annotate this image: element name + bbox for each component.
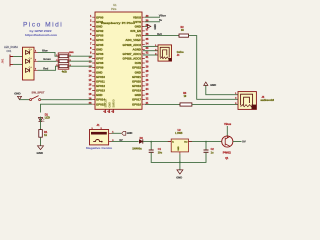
svg-text:GP012: GP012 bbox=[96, 84, 105, 88]
wire psu rail bbox=[143, 141, 222, 143]
svg-text:Negative Centre: Negative Centre bbox=[86, 146, 113, 150]
subtitle note bbox=[25, 29, 58, 37]
svg-text:GP00: GP00 bbox=[96, 15, 104, 19]
svg-text:Green: Green bbox=[43, 57, 51, 61]
svg-text:5V: 5V bbox=[242, 139, 246, 143]
svg-text:JH1: JH1 bbox=[1, 58, 5, 63]
jack pin numbers bbox=[112, 132, 114, 142]
svg-text:VBus: VBus bbox=[224, 122, 232, 126]
svg-text:GND: GND bbox=[96, 24, 102, 28]
connector JH1 bbox=[1, 45, 19, 67]
svg-text:GP016: GP016 bbox=[132, 102, 141, 106]
global label GND jack bbox=[122, 131, 133, 135]
svg-text:GND: GND bbox=[127, 131, 133, 135]
resistor R2 bbox=[179, 26, 189, 37]
junction C2 bbox=[205, 141, 207, 143]
wire Red bbox=[38, 66, 59, 70]
svg-text:SWDIO: SWDIO bbox=[113, 99, 116, 107]
svg-text:RUN: RUN bbox=[135, 61, 141, 65]
svg-text:GP03: GP03 bbox=[96, 34, 104, 38]
svg-text:by GPW 2022: by GPW 2022 bbox=[30, 29, 53, 33]
svg-text:3V3: 3V3 bbox=[136, 34, 142, 38]
LED D1 bbox=[39, 112, 51, 121]
wire GP015 branch bbox=[41, 104, 93, 112]
svg-text:1u: 1u bbox=[211, 151, 214, 154]
barrel jack J1 bbox=[86, 123, 113, 150]
svg-text:GND: GND bbox=[109, 102, 112, 108]
svg-text:9V: 9V bbox=[119, 138, 122, 142]
svg-text:GND: GND bbox=[96, 70, 102, 74]
svg-text:GP08: GP08 bbox=[96, 61, 104, 65]
U1 bottom debug pins bbox=[103, 98, 115, 113]
capacitor C2 bbox=[204, 142, 215, 155]
svg-text:GP04: GP04 bbox=[96, 38, 104, 42]
svg-text:GND: GND bbox=[135, 24, 141, 28]
wire VBus to Q1 bbox=[226, 126, 228, 136]
ground below R1 bbox=[37, 146, 44, 155]
svg-text:audiosock3: audiosock3 bbox=[261, 99, 275, 102]
svg-text:GP09: GP09 bbox=[96, 66, 104, 70]
wire R3 net bbox=[145, 103, 180, 105]
midi socket J4 bbox=[155, 45, 184, 61]
svg-text:LED_RGBA: LED_RGBA bbox=[4, 45, 18, 49]
svg-text:GND: GND bbox=[178, 146, 180, 151]
junction rail bbox=[179, 162, 181, 164]
ground at switch bbox=[14, 91, 21, 99]
svg-text:GP05: GP05 bbox=[96, 43, 104, 47]
wire gnd to switch bbox=[20, 99, 30, 101]
transistor Q1 bbox=[222, 136, 233, 160]
svg-text:3: 3 bbox=[35, 68, 36, 70]
svg-text:GP028_ADC2: GP028_ADC2 bbox=[123, 43, 142, 47]
wire switch to GP014 bbox=[41, 99, 93, 101]
junction C1 bbox=[150, 141, 152, 143]
wires RN1 to U1 bbox=[69, 56, 92, 66]
svg-text:VBus: VBus bbox=[159, 14, 167, 18]
svg-text:GND: GND bbox=[96, 47, 102, 51]
resistor R3 bbox=[180, 92, 192, 106]
resistor R1 bbox=[39, 130, 48, 138]
svg-text:Pico Midi: Pico Midi bbox=[23, 21, 63, 28]
svg-text:Out: Out bbox=[184, 140, 188, 143]
svg-text:Pico: Pico bbox=[111, 7, 117, 11]
svg-text:3v3: 3v3 bbox=[157, 32, 162, 36]
ground flag pin38 bbox=[145, 24, 157, 30]
svg-text:Raspberry Pi Pico: Raspberry Pi Pico bbox=[101, 21, 135, 25]
wire JH1 to LED bbox=[13, 57, 23, 65]
wire gnd to socket J5 bbox=[206, 85, 238, 94]
svg-text:5v: 5v bbox=[159, 18, 163, 22]
svg-text:GP06: GP06 bbox=[96, 52, 104, 56]
ground rail bbox=[151, 152, 206, 170]
svg-text:SWCLK: SWCLK bbox=[105, 98, 108, 107]
svg-text:GP011: GP011 bbox=[96, 79, 105, 83]
regulator U2 bbox=[168, 129, 192, 155]
U1 right pins bbox=[123, 15, 149, 106]
ground above socket J5 bbox=[204, 82, 217, 87]
label VBus top bbox=[224, 122, 232, 126]
wire VBUS bbox=[145, 14, 167, 18]
wire jack pin2 9V bbox=[112, 138, 139, 142]
wire D1 to R1 bbox=[40, 117, 42, 130]
svg-text:GP020: GP020 bbox=[132, 79, 141, 83]
svg-text:GP01: GP01 bbox=[96, 20, 104, 24]
svg-text:GP018: GP018 bbox=[132, 89, 141, 93]
audio socket J5 bbox=[235, 92, 275, 110]
svg-text:GP021: GP021 bbox=[132, 75, 141, 79]
capacitor C1 bbox=[149, 142, 163, 155]
U1 left pins bbox=[89, 15, 106, 106]
svg-text:ADC_VREF: ADC_VREF bbox=[125, 38, 141, 42]
svg-text:GP027_ADC1: GP027_ADC1 bbox=[123, 52, 142, 56]
svg-text:GP013: GP013 bbox=[96, 89, 105, 93]
svg-text:GND: GND bbox=[154, 24, 157, 30]
svg-text:GP017: GP017 bbox=[132, 98, 141, 102]
LED D2 RGB package bbox=[23, 47, 38, 80]
diode D3 bbox=[132, 137, 143, 151]
svg-text:LED: LED bbox=[45, 116, 50, 120]
svg-text:2: 2 bbox=[35, 59, 36, 61]
svg-text:GP026_ADC0: GP026_ADC0 bbox=[123, 57, 142, 61]
svg-text:GND: GND bbox=[176, 175, 182, 179]
wire R3 to socket J5 bbox=[192, 103, 238, 105]
svg-text:htlps://tedunsch.com: htlps://tedunsch.com bbox=[25, 33, 58, 37]
svg-text:GP019: GP019 bbox=[132, 84, 141, 88]
svg-text:1N400x: 1N400x bbox=[132, 147, 142, 150]
wire Blue bbox=[38, 49, 59, 57]
svg-text:GND: GND bbox=[135, 70, 141, 74]
svg-text:10u: 10u bbox=[158, 151, 163, 154]
svg-text:J1: J1 bbox=[97, 123, 100, 127]
svg-text:VSYS: VSYS bbox=[133, 20, 141, 24]
svg-text:GND: GND bbox=[14, 91, 20, 95]
svg-text:VBUS: VBUS bbox=[133, 15, 141, 19]
title text Pico Midi bbox=[23, 21, 63, 28]
svg-text:1: 1 bbox=[35, 50, 36, 52]
svg-text:3V3_EN: 3V3_EN bbox=[130, 29, 141, 33]
svg-text:GND: GND bbox=[135, 93, 141, 97]
IC U1 Raspberry Pi Pico bbox=[95, 3, 142, 109]
svg-text:GP022: GP022 bbox=[132, 66, 141, 70]
resistor network RN1 bbox=[56, 52, 74, 73]
svg-text:4x1k: 4x1k bbox=[62, 71, 68, 74]
svg-text:C01: C01 bbox=[7, 49, 12, 53]
switch SW1 bbox=[30, 91, 45, 101]
wire jack pin1 to GND label bbox=[112, 132, 122, 134]
sheet background bbox=[0, 0, 278, 181]
svg-text:U1: U1 bbox=[113, 3, 117, 7]
svg-text:AGND: AGND bbox=[132, 47, 141, 51]
svg-text:GND: GND bbox=[96, 93, 102, 97]
svg-text:L7805: L7805 bbox=[175, 132, 183, 135]
svg-text:PN02: PN02 bbox=[223, 151, 232, 154]
ground below U2 bbox=[176, 170, 183, 180]
svg-text:SW_SPST: SW_SPST bbox=[32, 91, 45, 95]
svg-text:GP07: GP07 bbox=[96, 57, 104, 61]
wire Green bbox=[38, 57, 59, 61]
wire Q1 out 5V bbox=[233, 139, 246, 143]
wires U1 to midi socket J4 bbox=[143, 46, 158, 55]
svg-text:Red: Red bbox=[43, 66, 48, 70]
svg-text:GP02: GP02 bbox=[96, 29, 104, 33]
svg-text:GP010: GP010 bbox=[96, 75, 105, 79]
svg-text:Blue: Blue bbox=[42, 49, 48, 53]
wire 3V3 bbox=[145, 32, 179, 36]
svg-text:GND: GND bbox=[37, 151, 43, 155]
svg-text:GND: GND bbox=[210, 83, 216, 87]
svg-text:Co/Fco: Co/Fco bbox=[177, 52, 185, 54]
wire R1 to ground bbox=[40, 137, 42, 146]
wire VSYS 5v bbox=[145, 18, 163, 22]
wire R2 to socket2 bbox=[189, 36, 239, 100]
